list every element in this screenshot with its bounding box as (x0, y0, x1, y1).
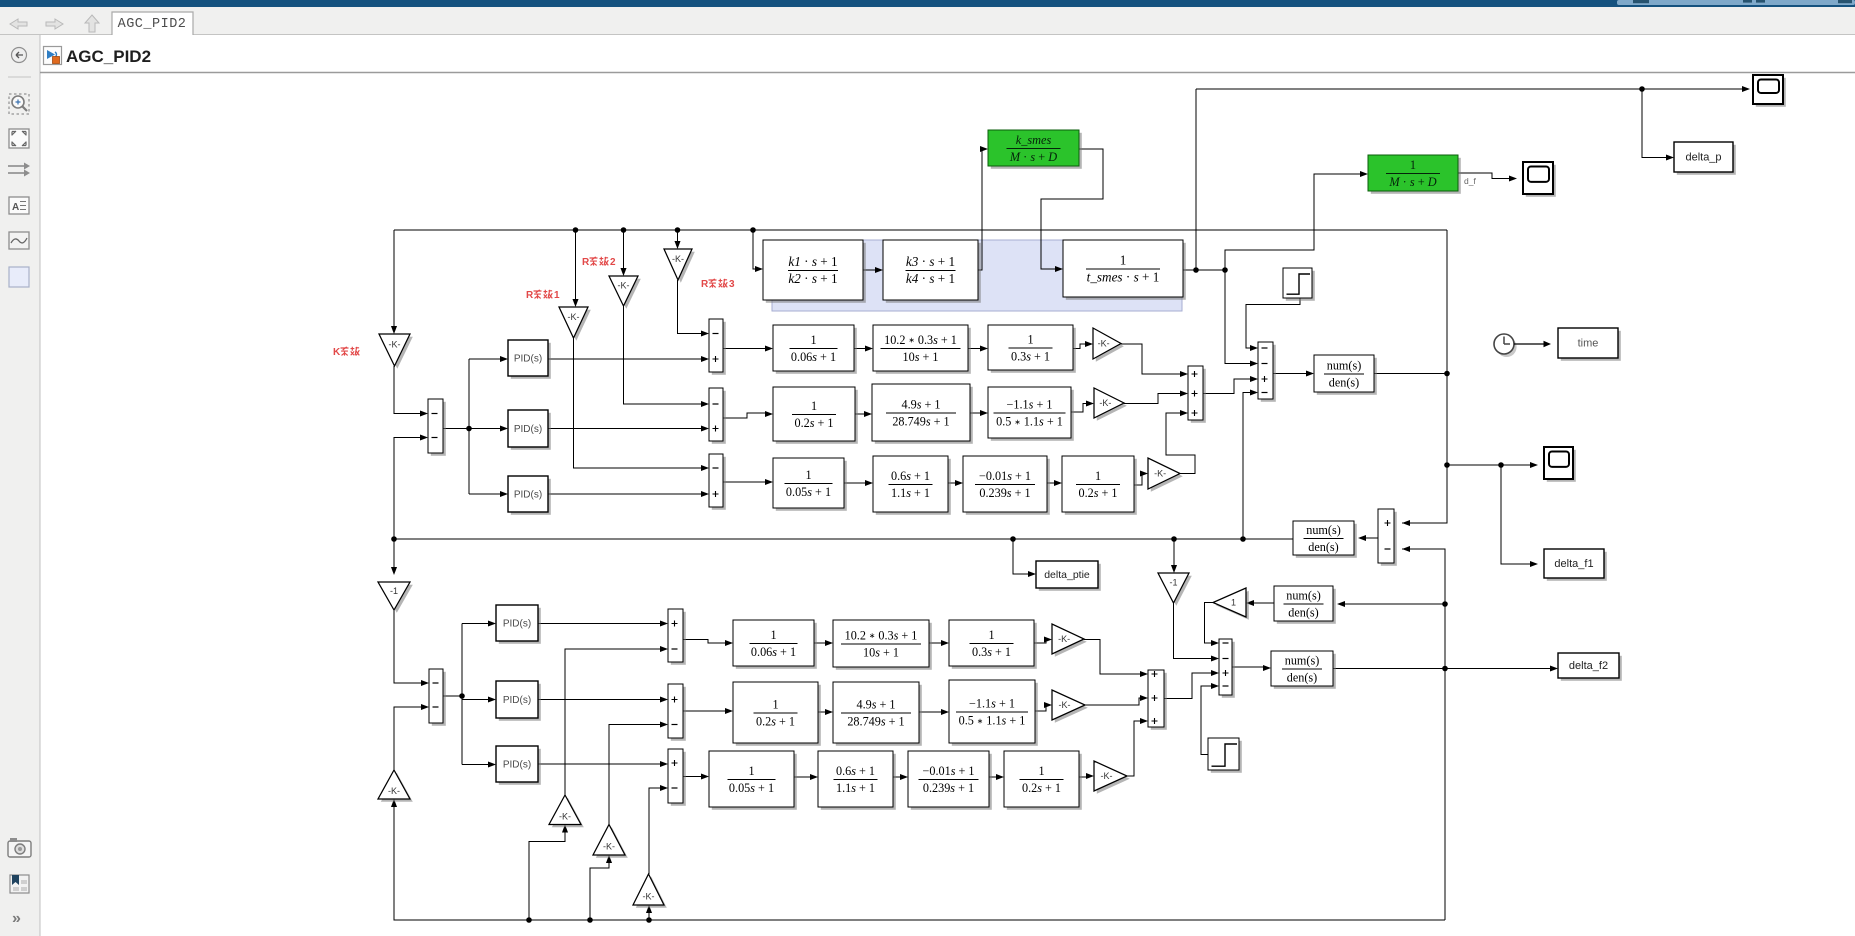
svg-text:d_f: d_f (1464, 176, 1476, 186)
outport delta_f1 (1544, 549, 1607, 581)
wire: row1 summer out (723, 348, 766, 350)
svg-text:1: 1 (1120, 252, 1127, 267)
arrowhead into tf 1/(0.06s+1) (765, 345, 773, 351)
PID controller 4 (lower) (496, 605, 541, 644)
summer_l1 (lower left) (429, 669, 446, 726)
svg-text:A: A (12, 202, 19, 213)
highlight region behind compensator blocks (772, 240, 1182, 311)
svg-text:PID(s): PID(s) (514, 424, 542, 435)
svg-text:-1: -1 (1169, 578, 1177, 588)
wire: bottom wire into upgain2 (529, 832, 565, 921)
arrowhead into PID2 (500, 425, 508, 431)
wire: numden3 input (1344, 603, 1445, 605)
wire: R1 output to summer row3 (574, 338, 703, 468)
label K系数 (333, 347, 359, 358)
summer_l3r (668, 749, 686, 806)
arrowhead into PID3 (500, 491, 508, 497)
wire: step2 output (1201, 686, 1212, 755)
scope2 (d_f) (1523, 162, 1556, 197)
wire: PID_l2 output (538, 699, 661, 701)
PID controller 1 (508, 340, 551, 379)
svg-text:k3 · s + 1: k3 · s + 1 (906, 254, 955, 269)
wire: smes tap to summer5 (1225, 269, 1251, 364)
svg-text:k4 · s + 1: k4 · s + 1 (906, 271, 955, 286)
svg-text:1: 1 (748, 764, 754, 778)
svg-text:K: K (333, 347, 341, 358)
svg-text:2: 2 (610, 257, 616, 268)
summer_l1r (668, 609, 686, 665)
wire: up to top scope wire (1195, 89, 1197, 270)
arrowhead into summer_l1 in2 (421, 704, 429, 710)
arrowhead into summer6 minus3 (1211, 683, 1219, 689)
wire: gain_l1 to summer_l4 (1084, 640, 1141, 675)
wire: trunk drop to k1 block (753, 230, 756, 269)
wire: summer1 output (443, 428, 469, 430)
report icon (10, 875, 29, 893)
toolbar row background (0, 7, 1855, 35)
arrowhead into summer1 second input (420, 434, 428, 440)
wire: row2 summer out (723, 413, 766, 418)
junction t_smes out b (1222, 267, 1228, 273)
arrowhead into numden3 (1337, 601, 1345, 607)
wire: row3 summer out (723, 481, 766, 483)
label R系数2 (582, 257, 616, 268)
svg-text:28.749s + 1: 28.749s + 1 (847, 715, 904, 729)
wire: l7-l8 (794, 776, 811, 778)
scope1 (top right) (1753, 75, 1786, 107)
svg-text:PID(s): PID(s) (503, 618, 531, 629)
wire: R2 drop (623, 230, 625, 269)
svg-text:10.2 ∗​ 0.3s + 1: 10.2 ∗​ 0.3s + 1 (884, 333, 957, 347)
arrowhead into tf_l7 (701, 773, 709, 779)
junction PID feed (466, 426, 472, 432)
arrowhead into PID_l2 (488, 696, 496, 702)
svg-text:1: 1 (988, 628, 994, 642)
wire: R1 drop (575, 230, 577, 300)
wire: summer_l3r out (683, 776, 702, 778)
svg-text:PID(s): PID(s) (503, 695, 531, 706)
tf 1/(0.06s+1) (773, 325, 857, 374)
arrowhead into summer_l2r minus (660, 721, 668, 727)
arrowhead into summer5 plus (1250, 376, 1258, 382)
svg-text:PID(s): PID(s) (514, 353, 542, 364)
arrowhead into row3 summer minus (701, 465, 709, 471)
svg-text:1: 1 (770, 628, 776, 642)
arrowhead into k1 block (755, 266, 763, 272)
svg-text:k2 · s + 1: k2 · s + 1 (788, 271, 837, 286)
arrowhead into tf_l8 (810, 774, 818, 780)
tf (-0.01s+1)/(0.239s+1) (963, 456, 1050, 515)
arrowhead into delta_p (1666, 154, 1674, 160)
summer7 (tie-line sum) (1378, 509, 1397, 566)
wire: feedback up into summer5 (1243, 393, 1251, 540)
wire: k1 to k3 (863, 269, 876, 271)
wire: summer4 output (1203, 379, 1251, 394)
arrowhead into tf_l4 (725, 708, 733, 714)
svg-text:0.05s + 1: 0.05s + 1 (729, 781, 774, 795)
arrowhead into tf_l6 (941, 709, 949, 715)
gain -K- up 4 (633, 874, 667, 908)
wire: branch to delta_p (1642, 89, 1667, 158)
tf_l8 (0.6s+1)/(1.1s+1) (818, 751, 896, 810)
arrowhead into upgain4 (646, 905, 652, 913)
junction R2 on trunk (621, 227, 627, 233)
junction t_smes out a (1193, 267, 1199, 273)
svg-text:0.6s + 1: 0.6s + 1 (836, 764, 875, 778)
wire: PID_l1 output (538, 623, 661, 625)
svg-text:−0.01s + 1: −0.01s + 1 (922, 764, 974, 778)
gain row2 -K- (1094, 388, 1127, 421)
junction R1 on trunk (573, 227, 579, 233)
summer1 (upper left) (428, 399, 446, 456)
arrowhead into delta_ptie (1028, 571, 1036, 577)
arrowhead into numden4 (1263, 665, 1271, 671)
arrowhead into gain_l2 (1044, 702, 1052, 708)
wire: summer7 output (1365, 537, 1378, 539)
PID controller 2 (508, 410, 551, 450)
wire: row2 gain to summer4 (1124, 394, 1181, 404)
summer row1 upper (709, 319, 726, 375)
wire: into PID2 (469, 428, 501, 430)
arrowhead into tf (4.9s+1)/(28.749s+1) (864, 411, 872, 417)
tf (0.6s+1)/(1.1s+1) (873, 456, 951, 515)
arrowhead into summer_l1r minus (660, 646, 668, 652)
wire: l6-gain (1035, 705, 1046, 711)
arrowhead into R2 gain (620, 268, 626, 276)
annotation icon (9, 197, 29, 214)
svg-text:num(s): num(s) (1327, 358, 1362, 372)
arrowhead into k3 block (875, 267, 883, 273)
pale blue square icon (9, 267, 29, 287)
model tab AGC_PID2 (112, 12, 193, 35)
junction lower PID feed (459, 693, 465, 699)
wire: green k_smes out to t_smes (1041, 149, 1103, 269)
gain -1 upper-left of lower subsystem (378, 582, 413, 613)
arrowhead into summer5 minus2 (1250, 360, 1258, 366)
gain R3 (664, 249, 695, 283)
svg-text:0.2s + 1: 0.2s + 1 (794, 416, 833, 430)
arrowhead into row1 summer plus (701, 356, 709, 362)
PID controller 3 (508, 476, 551, 515)
arrowhead into scope1 (1742, 86, 1750, 92)
svg-text:k1 · s + 1: k1 · s + 1 (788, 254, 837, 269)
tf_l1 1/(0.06s+1) (733, 620, 817, 669)
svg-text:0.05s + 1: 0.05s + 1 (786, 485, 831, 499)
wire: delta_f1 feedback (y=539) (394, 538, 1293, 540)
label R系数3 (701, 279, 735, 290)
gain R1 (559, 307, 591, 341)
svg-text:PID(s): PID(s) (503, 759, 531, 770)
wire: smes tap to green2 (1225, 174, 1361, 269)
wire: unit gain to summer6 (1205, 603, 1214, 644)
numden4 (1271, 651, 1336, 689)
junction at feedback/x394 (391, 536, 397, 542)
arrowhead into tf 1/(0.2s+1) upper (765, 411, 773, 417)
wire: PID2 output (548, 428, 702, 430)
wire: row1 tf2-tf3 (968, 348, 981, 350)
arrowhead into tf_l2 (825, 640, 833, 646)
wire: PID feed vertical (468, 359, 470, 494)
wire: row3 tf3-tf4 (1047, 482, 1055, 484)
gain unit 1 (left-pointing) (1213, 588, 1249, 620)
arrowhead into gain row1 (1085, 341, 1093, 347)
wire: row3 tf4-gain (1134, 474, 1142, 486)
forward navigation arrow (46, 19, 63, 29)
gain K (K系数) (379, 334, 413, 369)
wire: gain_l2 to summer_l4 (1085, 698, 1141, 705)
svg-text:delta_p: delta_p (1685, 152, 1721, 164)
arrowhead into green 1/(M.s+D) (1360, 171, 1368, 177)
arrowhead into summer5 minus3 (1250, 389, 1258, 395)
wire: l9-l10 (989, 776, 997, 778)
svg-text:den(s): den(s) (1287, 671, 1317, 685)
arrowhead into PID_l1 (488, 620, 496, 626)
svg-text:1: 1 (805, 468, 811, 482)
arrowhead into R3 gain (674, 241, 680, 249)
summer_l4 (lower sum of rows) (1148, 670, 1167, 730)
arrowhead into tf_l9 (900, 774, 908, 780)
svg-text:-K-: -K- (603, 842, 615, 852)
svg-text:-K-: -K- (568, 312, 580, 322)
tf (k1.s+1)/(k2.s+1) (763, 240, 866, 303)
svg-text:-K-: -K- (1154, 469, 1166, 479)
junction delta_f2 line (1442, 666, 1448, 672)
svg-text:1: 1 (1038, 764, 1044, 778)
svg-text:M · s + D: M · s + D (1009, 150, 1057, 164)
svg-text:R: R (582, 257, 590, 268)
svg-text:1: 1 (1095, 469, 1101, 483)
svg-text:−1.1s + 1: −1.1s + 1 (969, 696, 1015, 710)
wire: summer_l1 output (443, 695, 462, 697)
svg-text:delta_ptie: delta_ptie (1044, 569, 1090, 581)
wire: branch to delta_f1 (1501, 465, 1531, 564)
arrowhead into numden1 (1306, 370, 1314, 376)
summer row2 upper (709, 388, 726, 444)
arrowhead into gain_l1 (1044, 636, 1052, 642)
arrowhead into R1 gain (572, 299, 578, 307)
wire: x1445 lower trunk upper part (1402, 549, 1445, 604)
wire: PID1 output (548, 358, 702, 360)
wire: l5-l6 (919, 711, 942, 713)
gain_l1 -K- (1052, 624, 1087, 657)
arrowhead into summer4 in2 (1180, 390, 1188, 396)
wire: summer_l1r out (683, 640, 726, 644)
arrowhead into -1 gain mid (1171, 565, 1177, 573)
arrowhead into tf_l1 (725, 640, 733, 646)
wire: into PID3 (469, 493, 501, 495)
svg-text:-K-: -K- (618, 281, 630, 291)
tf_l6 (-1.1s+1)/(0.5*1.1s+1) (949, 680, 1038, 746)
junction -1 branch (1171, 536, 1177, 542)
summer_l2r (668, 684, 686, 741)
wire: R3 drop (677, 230, 679, 242)
svg-text:M · s + D: M · s + D (1388, 175, 1436, 189)
canvas top border (40, 72, 1855, 74)
gain -1 mid (1158, 573, 1192, 606)
summer6 (lower output sum) (1219, 639, 1235, 698)
numden1 (1314, 355, 1377, 395)
svg-text:4.9s + 1: 4.9s + 1 (901, 397, 940, 411)
tf (4.9s+1)/(28.749s+1) (872, 384, 973, 444)
wire: step1 output (1246, 298, 1300, 348)
arrowhead into summer5 minus1 (1250, 345, 1258, 351)
svg-text:den(s): den(s) (1288, 606, 1318, 620)
tf (k3.s+1)/(k4.s+1) (883, 240, 981, 303)
svg-text:-K-: -K- (1101, 771, 1113, 781)
arrowhead into tf_l5 (825, 709, 833, 715)
svg-text:0.3s + 1: 0.3s + 1 (1011, 350, 1050, 364)
arrowhead into summer6 plus (1211, 670, 1219, 676)
arrowhead into summer7 minus (1402, 546, 1410, 552)
svg-text:1: 1 (1410, 158, 1416, 172)
window title bar (dark blue) (0, 0, 1855, 7)
tf 1/(0.2s+1) row3 (1062, 456, 1137, 515)
arrowhead into summer_l4 in2 (1140, 695, 1148, 701)
tf (10.2*0.3s+1)/(10s+1) (873, 325, 971, 374)
wire: l8-l9 (893, 776, 901, 778)
svg-text:1.1s + 1: 1.1s + 1 (891, 486, 930, 500)
junction bottom b2 (526, 917, 532, 923)
arrowhead into green k_smes block (980, 146, 988, 152)
arrowhead into gain row3 (1140, 470, 1148, 476)
gain -K- up (left) (378, 770, 413, 802)
wire: bottom feedback wire (394, 806, 1445, 920)
svg-text:AGC_PID2: AGC_PID2 (118, 17, 187, 32)
wire: lower PID feed vertical (461, 624, 463, 765)
wire: numden1 output to trunk (1374, 373, 1447, 375)
outport delta_p (1674, 142, 1736, 175)
svg-text:-K-: -K- (643, 891, 655, 901)
numden3 (1274, 586, 1336, 624)
gain -K- up 3 (593, 825, 628, 858)
svg-text:delta_f1: delta_f1 (1554, 558, 1593, 570)
svg-text:AGC_PID2: AGC_PID2 (66, 47, 151, 66)
svg-text:-K-: -K- (1059, 700, 1071, 710)
wire: summer_l2r out (683, 710, 726, 712)
svg-text:0.2s + 1: 0.2s + 1 (756, 715, 795, 729)
wire: l2-l3 (929, 642, 942, 644)
gain R2 (609, 276, 641, 309)
tf 1/(0.3s+1) (988, 325, 1076, 373)
svg-text:-K-: -K- (389, 339, 401, 349)
toolbar separator (8, 76, 31, 78)
wire: row3 tf2-tf3 (948, 482, 956, 484)
arrowhead into numden2 (1358, 535, 1366, 541)
wire: top feedback trunk y=230 (394, 229, 1447, 231)
wire: row3 gain to summer4 (1166, 413, 1195, 474)
svg-text:-K-: -K- (388, 786, 400, 796)
arrowhead into tf (10.2*0.3s+1)/(10s+1) (865, 345, 873, 351)
tf_l4 1/(0.2s+1) (733, 682, 821, 746)
tf_l10 1/(0.2s+1) (1004, 751, 1082, 810)
arrowhead into PID1 (500, 356, 508, 362)
wire: upgain4 out to summer_l3r (649, 788, 661, 874)
wire: into PID_l1 (462, 623, 489, 625)
scope3 (delta_f1) (1544, 447, 1576, 482)
summer5 (upper output sum) (1258, 342, 1276, 402)
svg-text:-K-: -K- (559, 811, 571, 821)
svg-text:den(s): den(s) (1308, 540, 1338, 554)
svg-text:time: time (1578, 338, 1599, 350)
svg-text:num(s): num(s) (1306, 523, 1341, 537)
fit to view icon (9, 129, 29, 148)
arrowhead into delta_f1 (1530, 561, 1538, 567)
left toolbar strip (0, 35, 40, 936)
arrowhead into summer_l3r minus (660, 785, 668, 791)
junction bottom b3 (587, 917, 593, 923)
junction feedback/x1243 (1240, 536, 1246, 542)
wire: upgain3 out to summer_l2r (609, 725, 661, 825)
svg-text:1: 1 (772, 697, 778, 711)
svg-text:10s + 1: 10s + 1 (863, 646, 899, 660)
junction numden3 feed (1442, 601, 1448, 607)
arrowhead into tf (-0.01s+1)/(0.239s+1) upper (955, 480, 963, 486)
wire: numden3 out to 1-gain (1253, 602, 1274, 604)
wire: summer_l4 output (1164, 673, 1212, 699)
step source 2 (1208, 738, 1242, 773)
wire: K gain drop (393, 230, 395, 327)
wire: row1 gain to summer4 (1121, 344, 1181, 374)
wire: green2 out to scope2 (1458, 173, 1510, 179)
wire clock to time (1514, 343, 1544, 345)
arrowhead into gain_l3 (1086, 773, 1094, 779)
arrowhead into unit gain (1246, 600, 1254, 606)
arrowhead into summer1 first input (420, 410, 428, 416)
wire: into PID_l3 (462, 764, 489, 766)
arrowhead into gain row2 (1086, 400, 1094, 406)
svg-text:0.6s + 1: 0.6s + 1 (891, 469, 930, 483)
arrowhead into delta_f2 (1550, 665, 1558, 671)
tf 1/(0.05s+1) (773, 458, 847, 511)
arrowhead into summer_l4 in1 (1140, 671, 1148, 677)
wire: l1-l2 (814, 642, 826, 644)
svg-text:»: » (12, 910, 21, 927)
outport time (1558, 328, 1621, 361)
wire: right trunk x=1447 down (1402, 230, 1447, 523)
svg-text:PID(s): PID(s) (514, 489, 542, 500)
wire: PID_l3 output (538, 763, 661, 765)
wire: PID3 output (548, 493, 702, 495)
arrowhead into row1 summer minus (701, 330, 709, 336)
arrowhead into PID_l3 (488, 761, 496, 767)
arrowhead into tf_l3 (941, 640, 949, 646)
numden2 (1293, 521, 1357, 558)
svg-text:4.9s + 1: 4.9s + 1 (856, 697, 895, 711)
wire: summer5 output (1273, 373, 1307, 375)
svg-text:−1.1s + 1: −1.1s + 1 (1007, 397, 1053, 411)
wire: l4-l5 (818, 711, 826, 713)
label R系数1 (526, 290, 560, 301)
wire: summer6 output (1232, 666, 1264, 668)
summer4 (upper sum of rows) (1188, 366, 1206, 423)
wire: branch to delta_ptie (1013, 539, 1029, 574)
arrowhead into summer6 minus2 (1211, 655, 1219, 661)
arrowhead into summer_l2r plus (660, 696, 668, 702)
svg-text:-K-: -K- (1099, 398, 1111, 408)
svg-text:0.239s + 1: 0.239s + 1 (923, 781, 974, 795)
clock block (1494, 334, 1517, 357)
wire: gain_l3 to summer_l4 (1127, 721, 1141, 776)
svg-text:0.5 ∗​ 1.1s + 1: 0.5 ∗​ 1.1s + 1 (959, 714, 1026, 728)
arrowhead into upgain2 (562, 825, 568, 833)
breadcrumb bar (40, 35, 1855, 72)
tf (-1.1s+1)/(0.5*1.1s+1) (988, 387, 1074, 441)
tf_l5 (4.9s+1)/(28.749s+1) (833, 682, 922, 746)
wire: t_smes output (1183, 269, 1225, 271)
arrowhead into row3 summer plus (701, 491, 709, 497)
arrowhead into t_smes block (1055, 266, 1063, 272)
wire: R3 output to summer row1 (678, 280, 703, 334)
